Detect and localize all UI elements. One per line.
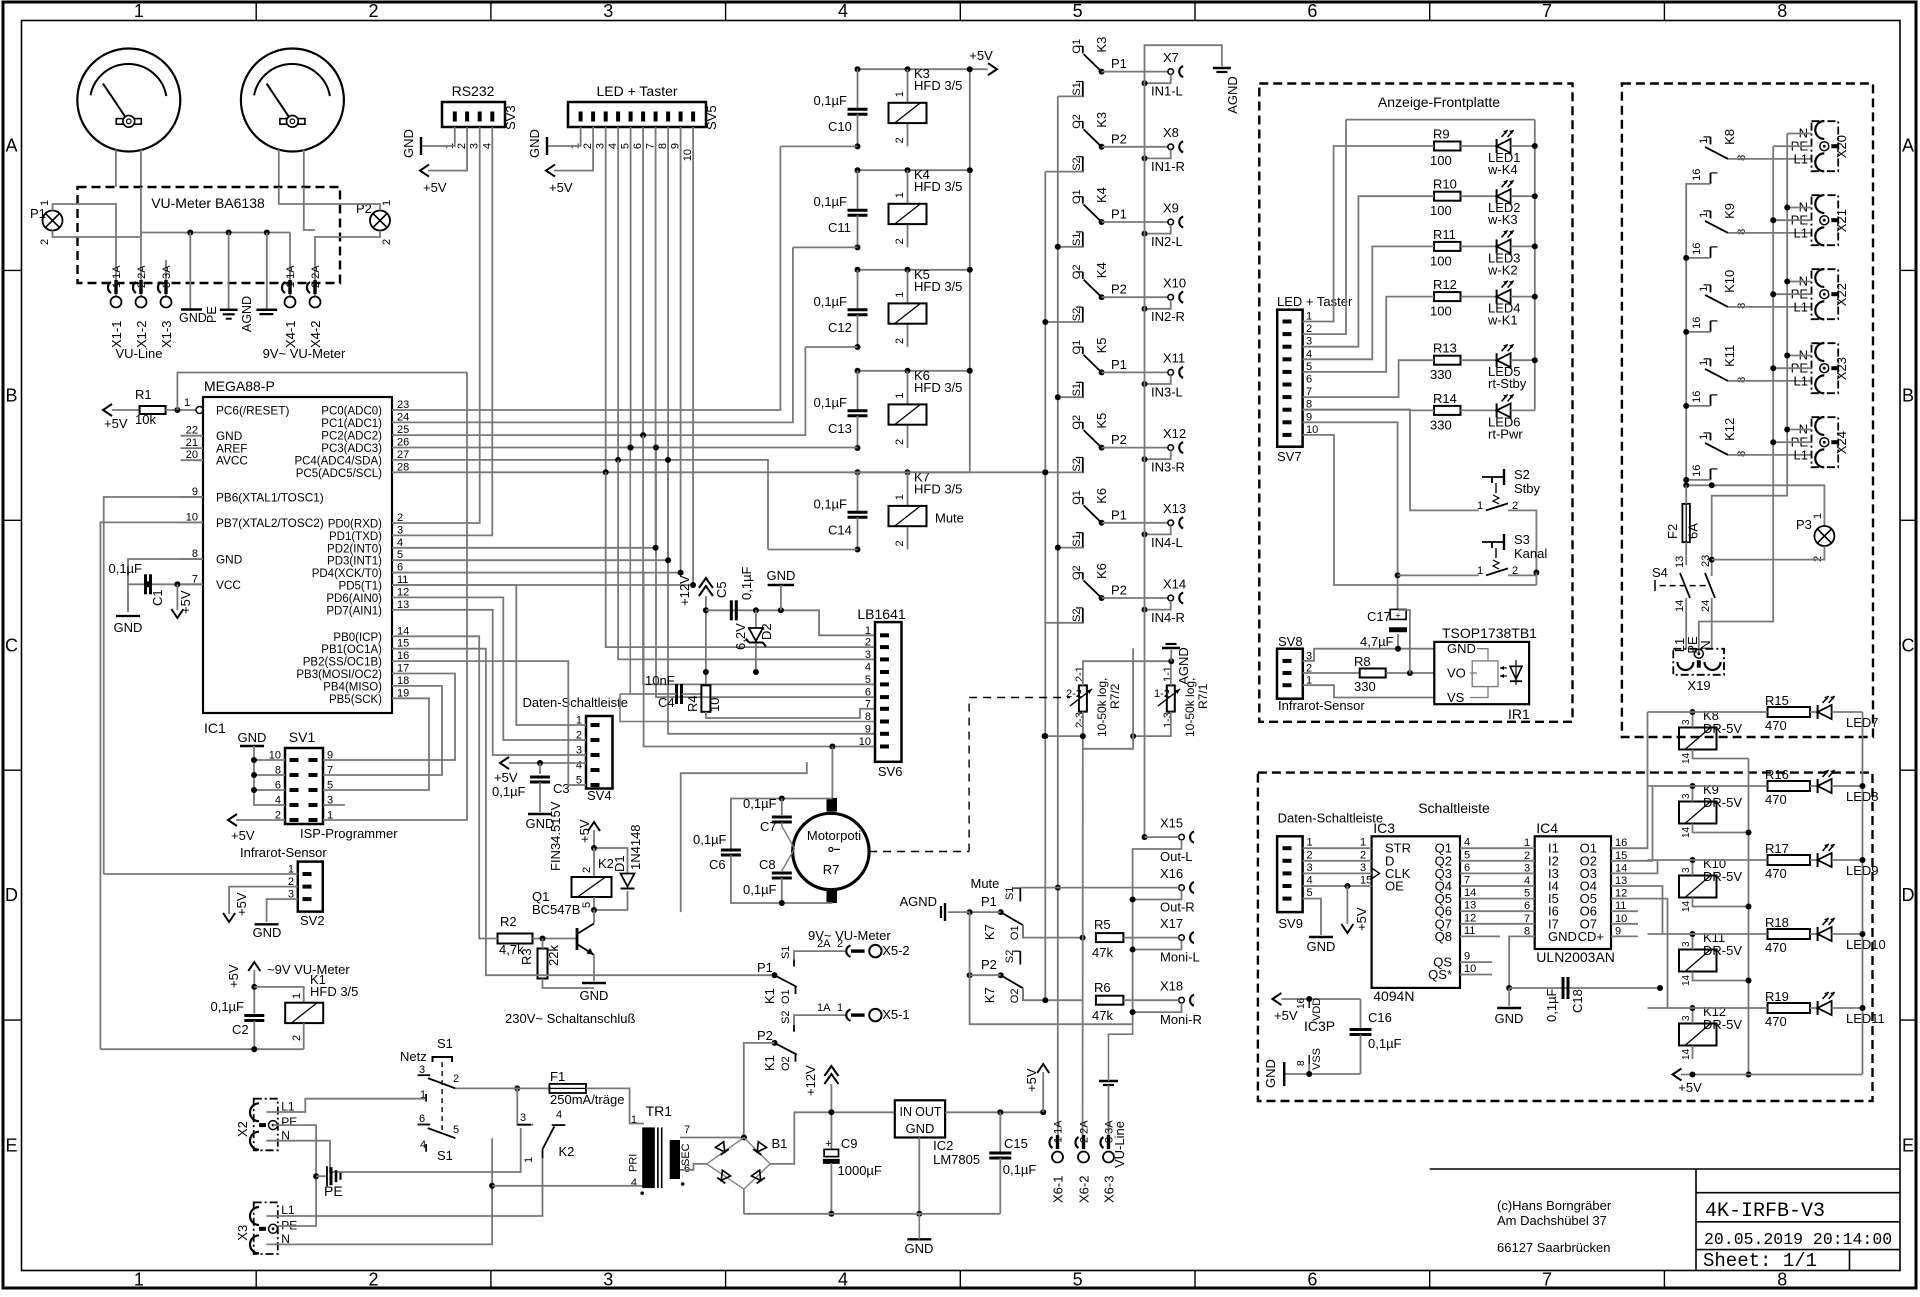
svg-text:10: 10	[707, 698, 722, 712]
switch S2 Stby	[1477, 467, 1541, 573]
svg-text:+5V: +5V	[226, 964, 241, 988]
connector X9 IN2-L	[1142, 200, 1184, 249]
label VU-Line	[116, 346, 163, 361]
svg-text:9: 9	[865, 723, 871, 735]
svg-text:R19: R19	[1765, 989, 1789, 1004]
svg-text:3: 3	[419, 1064, 425, 1076]
svg-text:11: 11	[1464, 925, 1475, 937]
wire SV3 taps	[392, 127, 492, 535]
svg-text:C3: C3	[553, 781, 570, 796]
lamp P3	[1712, 513, 1835, 562]
svg-text:C10: C10	[828, 119, 852, 134]
svg-text:PD4(XCK/T0): PD4(XCK/T0)	[312, 568, 382, 580]
svg-text:IN3-L: IN3-L	[1151, 384, 1183, 399]
svg-text:SV4: SV4	[587, 788, 612, 803]
transformer TR1	[492, 1103, 692, 1195]
svg-text:w-K4: w-K4	[1487, 162, 1518, 177]
terminal X6-2	[1075, 1120, 1091, 1203]
svg-text:X21: X21	[1834, 209, 1849, 232]
svg-text:AGND: AGND	[1225, 76, 1240, 114]
connector X8 IN1-R	[1142, 125, 1185, 174]
svg-text:Sheet: 1/1: Sheet: 1/1	[1703, 1250, 1817, 1272]
svg-text:PD1(TXD): PD1(TXD)	[329, 531, 382, 543]
wire X6 sleeve	[1109, 1024, 1133, 1081]
svg-text:8: 8	[1736, 451, 1748, 457]
svg-text:R8: R8	[1354, 654, 1371, 669]
svg-text:GND: GND	[1263, 1059, 1278, 1088]
svg-text:VO: VO	[1447, 666, 1466, 681]
svg-text:0,1µF: 0,1µF	[743, 796, 777, 811]
svg-text:IN2-L: IN2-L	[1151, 234, 1183, 249]
svg-text:K1: K1	[762, 1055, 777, 1071]
svg-text:13: 13	[1464, 900, 1476, 912]
svg-text:K3: K3	[1094, 112, 1109, 128]
svg-text:R7/2: R7/2	[1108, 683, 1122, 709]
wire SV8	[1303, 646, 1435, 698]
Anzeige-Frontplatte block	[1259, 84, 1572, 722]
svg-text:VSS: VSS	[1311, 1048, 1323, 1070]
svg-text:IC1: IC1	[204, 720, 226, 736]
svg-text:PE: PE	[324, 1183, 343, 1199]
svg-text:9V~ VU-Meter: 9V~ VU-Meter	[263, 346, 346, 361]
svg-text:O1: O1	[780, 989, 792, 1004]
svg-text:PB0(ICP): PB0(ICP)	[333, 632, 382, 644]
svg-text:16: 16	[1691, 169, 1703, 181]
svg-text:K11: K11	[1722, 345, 1737, 367]
resistor R1	[103, 373, 467, 432]
svg-text:PE: PE	[205, 306, 219, 323]
svg-text:IN2-R: IN2-R	[1151, 309, 1185, 324]
switch K7 mute contacts	[681, 762, 1133, 1024]
svg-text:3: 3	[865, 649, 871, 661]
svg-text:16: 16	[1296, 997, 1307, 1009]
svg-text:C: C	[1902, 635, 1915, 655]
capacitor C5	[706, 566, 875, 635]
wire K10 drive	[1648, 859, 1768, 861]
capacitor C7	[731, 796, 833, 851]
svg-text:+12V: +12V	[677, 575, 692, 606]
regulator IC2 LM7805	[895, 1100, 980, 1217]
svg-text:7: 7	[1542, 1, 1552, 21]
label 9V~ VU-Meter	[263, 346, 346, 361]
svg-text:+5V: +5V	[231, 828, 255, 843]
svg-text:Schaltleiste: Schaltleiste	[1418, 800, 1490, 816]
svg-text:14: 14	[1674, 600, 1686, 612]
switch contact K6 P1	[1071, 488, 1168, 548]
svg-text:D1: D1	[612, 855, 627, 872]
wire fuse node	[1683, 482, 1824, 562]
svg-text:R17: R17	[1765, 841, 1789, 856]
capacitor C1	[108, 559, 203, 635]
svg-text:O2: O2	[780, 1056, 792, 1071]
connector SV6 LB1641	[857, 606, 905, 779]
svg-text:X17: X17	[1160, 916, 1183, 931]
svg-text:R15: R15	[1765, 693, 1789, 708]
svg-text:X22: X22	[1834, 283, 1849, 306]
socket X20	[1791, 121, 1849, 171]
svg-text:(c)Hans Borngräber: (c)Hans Borngräber	[1497, 1198, 1612, 1213]
LED LED6	[1461, 394, 1535, 441]
svg-text:4,7µF: 4,7µF	[1360, 634, 1394, 649]
svg-text:1: 1	[134, 1270, 144, 1290]
svg-text:3: 3	[1681, 793, 1692, 799]
svg-text:14: 14	[1681, 900, 1692, 912]
resistor R17	[1765, 841, 1810, 881]
svg-text:IN3-R: IN3-R	[1151, 460, 1185, 475]
wire S1/S2 trunks	[1042, 96, 1083, 1135]
connector X5-2	[808, 928, 910, 958]
svg-text:Stby: Stby	[1514, 481, 1541, 496]
relay K3 coil	[889, 103, 927, 123]
svg-text:X10: X10	[1163, 276, 1186, 291]
switch contact K6 P2	[1071, 563, 1168, 623]
svg-text:C2: C2	[232, 1022, 249, 1037]
svg-text:TSOP1738TB1: TSOP1738TB1	[1442, 625, 1537, 641]
ground AGND X6	[1099, 1081, 1118, 1135]
svg-text:0,1µF: 0,1µF	[743, 882, 777, 897]
svg-text:+5V: +5V	[577, 819, 592, 843]
svg-text:0,1µF: 0,1µF	[1368, 1036, 1402, 1051]
svg-text:X9: X9	[1163, 200, 1179, 215]
svg-text:GND: GND	[905, 1241, 934, 1256]
svg-text:21: 21	[186, 437, 198, 449]
svg-text:IN4-L: IN4-L	[1151, 535, 1183, 550]
svg-text:14: 14	[1681, 752, 1692, 764]
resistor R15	[1765, 693, 1810, 733]
wire	[78, 187, 341, 296]
svg-text:PD6(AIN0): PD6(AIN0)	[326, 593, 382, 605]
svg-text:470: 470	[1765, 1014, 1787, 1029]
socket X22	[1791, 269, 1849, 319]
svg-text:C7: C7	[760, 819, 777, 834]
LED LED11	[1810, 992, 1885, 1026]
svg-text:C16: C16	[1368, 1010, 1392, 1025]
svg-text:F1: F1	[550, 1069, 565, 1084]
svg-text:SV3: SV3	[503, 105, 518, 130]
svg-text:470: 470	[1765, 940, 1787, 955]
svg-text:K4: K4	[1094, 262, 1109, 278]
svg-text:PB2(SS/OC1B): PB2(SS/OC1B)	[303, 657, 382, 669]
op-amp U1 microcontroller IC1 MEGA88-P	[181, 378, 410, 736]
svg-text:3: 3	[1307, 862, 1313, 874]
svg-text:PD2(INT0): PD2(INT0)	[327, 543, 382, 555]
svg-text:K2: K2	[559, 1144, 575, 1159]
svg-text:GND: GND	[527, 129, 542, 158]
svg-text:K5: K5	[1094, 413, 1109, 429]
svg-text:GND: GND	[767, 568, 796, 583]
svg-text:100: 100	[1430, 203, 1452, 218]
svg-text:F2: F2	[1665, 524, 1680, 539]
svg-text:GND: GND	[1548, 929, 1577, 944]
svg-text:w-K2: w-K2	[1487, 262, 1518, 277]
connector X14 IN4-R	[1142, 576, 1187, 625]
svg-text:OUT: OUT	[915, 1105, 942, 1119]
svg-text:4094N: 4094N	[1373, 988, 1414, 1004]
wire SV1	[228, 730, 398, 843]
svg-text:A: A	[1902, 135, 1914, 155]
svg-text:1: 1	[134, 1, 144, 21]
relay K9 coil DR-5V	[1679, 782, 1742, 824]
switch S3 Kanal	[1477, 532, 1547, 585]
svg-text:4: 4	[1307, 875, 1313, 887]
svg-text:3: 3	[603, 1270, 613, 1290]
svg-text:IN1-L: IN1-L	[1151, 84, 1183, 99]
svg-text:7: 7	[865, 698, 871, 710]
svg-text:P1: P1	[1111, 56, 1127, 71]
svg-text:PB3(MOSI/OC2): PB3(MOSI/OC2)	[296, 669, 382, 681]
wire K10 pin14	[1681, 898, 1749, 913]
capacitor C2	[100, 999, 303, 1052]
svg-text:7: 7	[1464, 875, 1470, 887]
svg-text:R5: R5	[1094, 917, 1111, 932]
ground AGND	[240, 233, 277, 333]
svg-text:Kanal: Kanal	[1514, 546, 1547, 561]
svg-text:HFD 3/5: HFD 3/5	[914, 481, 962, 496]
IR receiver IR1 TSOP1738TB1	[1434, 625, 1537, 722]
svg-text:16: 16	[1691, 391, 1703, 403]
svg-text:HFD 3/5: HFD 3/5	[914, 78, 962, 93]
svg-text:C5: C5	[714, 581, 729, 598]
svg-text:C6: C6	[709, 857, 726, 872]
terminal X6-3	[1100, 1120, 1116, 1203]
resistor R6 47k	[1042, 980, 1178, 1023]
svg-text:330: 330	[1430, 417, 1452, 432]
svg-text:O2: O2	[1009, 989, 1021, 1004]
svg-text:L1: L1	[1794, 374, 1808, 389]
svg-text:47k: 47k	[1092, 1008, 1113, 1023]
svg-text:P2: P2	[757, 1028, 773, 1043]
svg-text:P2: P2	[1111, 131, 1127, 146]
svg-text:PB1(OC1A): PB1(OC1A)	[321, 644, 382, 656]
svg-text:HFD 3/5: HFD 3/5	[914, 179, 962, 194]
svg-text:6: 6	[865, 687, 871, 699]
svg-text:P1: P1	[1111, 357, 1127, 372]
svg-text:S1: S1	[1071, 383, 1083, 396]
svg-text:ULN2003AN: ULN2003AN	[1536, 949, 1615, 965]
svg-text:R13: R13	[1433, 341, 1457, 356]
svg-text:+5V: +5V	[494, 770, 518, 785]
wire mechanical link	[869, 698, 1070, 852]
svg-text:Netz: Netz	[400, 1049, 427, 1064]
svg-text:8: 8	[1736, 155, 1748, 161]
svg-text:MEGA88-P: MEGA88-P	[204, 378, 275, 394]
svg-text:1: 1	[1307, 837, 1313, 849]
resistor R19	[1765, 989, 1810, 1029]
svg-text:1: 1	[1698, 138, 1710, 144]
svg-text:5: 5	[1073, 1, 1083, 21]
capacitor C6	[693, 832, 832, 903]
bridge rectifier B1	[680, 1112, 895, 1214]
svg-text:D: D	[5, 885, 18, 905]
svg-text:VCC: VCC	[216, 578, 241, 592]
ground PE	[316, 1166, 343, 1199]
svg-text:PC2(ADC2): PC2(ADC2)	[321, 431, 382, 443]
svg-text:C11: C11	[828, 220, 851, 235]
connector X16 Out-R	[1133, 866, 1195, 915]
svg-text:1: 1	[894, 91, 906, 97]
svg-text:Motorpoti: Motorpoti	[807, 828, 861, 843]
svg-text:10-50k log,: 10-50k log,	[1095, 678, 1109, 737]
connector SV3	[442, 83, 518, 149]
svg-text:P3: P3	[1796, 517, 1812, 532]
wire out nets	[1020, 834, 1178, 1024]
LED LED8	[1810, 770, 1879, 804]
svg-text:FIN34.515V: FIN34.515V	[548, 801, 563, 871]
svg-text:K8: K8	[1722, 129, 1737, 145]
LED LED4	[1461, 281, 1535, 328]
svg-text:S4: S4	[1652, 565, 1668, 580]
svg-text:5: 5	[1073, 1270, 1083, 1290]
svg-text:+5V: +5V	[178, 590, 193, 614]
svg-text:DR-5V: DR-5V	[1703, 795, 1742, 810]
svg-text:L1: L1	[1794, 152, 1808, 167]
LED LED2	[1461, 180, 1535, 227]
svg-text:2 2A: 2 2A	[310, 265, 322, 288]
relay K4 coil	[889, 204, 927, 224]
svg-text:C9: C9	[841, 1136, 858, 1151]
svg-text:R14: R14	[1433, 391, 1457, 406]
svg-text:3: 3	[1360, 862, 1366, 874]
LED LED3	[1461, 230, 1535, 277]
wire	[116, 150, 141, 188]
svg-text:+5V: +5V	[1354, 907, 1369, 931]
svg-text:330: 330	[1354, 679, 1376, 694]
svg-text:E: E	[1902, 1135, 1914, 1155]
svg-text:5: 5	[453, 1124, 459, 1136]
svg-text:PC4(ADC4/SDA): PC4(ADC4/SDA)	[294, 455, 382, 467]
svg-text:S1: S1	[437, 1148, 453, 1163]
fuse F2 6A	[1665, 485, 1701, 565]
terminal X4-2	[307, 265, 323, 348]
svg-text:1: 1	[1698, 434, 1710, 440]
svg-text:10nF: 10nF	[645, 673, 675, 688]
svg-text:1: 1	[1477, 565, 1483, 577]
connector X17 Moni-L	[1133, 916, 1200, 965]
svg-text:2-1: 2-1	[1074, 666, 1086, 682]
ground PE	[205, 233, 238, 324]
svg-text:6,2V: 6,2V	[733, 623, 748, 650]
svg-text:0,1µF: 0,1µF	[813, 194, 847, 209]
transistor Q1 BC547B	[505, 889, 636, 1026]
svg-text:Moni-L: Moni-L	[1160, 950, 1200, 965]
svg-text:HFD 3/5: HFD 3/5	[310, 984, 358, 999]
svg-text:B: B	[5, 385, 17, 405]
wire K11 drive	[1648, 933, 1768, 935]
svg-text:470: 470	[1765, 866, 1787, 881]
svg-text:1-1: 1-1	[1162, 666, 1174, 682]
svg-text:B: B	[1902, 385, 1914, 405]
connector SV4	[523, 695, 629, 803]
svg-text:8: 8	[1296, 1060, 1307, 1066]
wire K11 pin14	[1681, 972, 1749, 987]
svg-text:rt-Pwr: rt-Pwr	[1488, 426, 1523, 441]
svg-text:+5V: +5V	[1024, 1068, 1039, 1092]
svg-text:3: 3	[603, 1, 613, 21]
svg-text:2: 2	[369, 1270, 379, 1290]
socket X23	[1791, 343, 1849, 393]
svg-text:470: 470	[1765, 718, 1787, 733]
svg-text:2: 2	[581, 867, 593, 873]
svg-text:P1: P1	[757, 960, 773, 975]
svg-text:1: 1	[523, 1157, 535, 1163]
wire	[279, 150, 304, 188]
svg-text:4: 4	[838, 1, 848, 21]
connector X5-1	[817, 1002, 910, 1022]
svg-text:Daten-Schaltleiste: Daten-Schaltleiste	[523, 695, 629, 710]
svg-text:PB6(XTAL1/TOSC1): PB6(XTAL1/TOSC1)	[216, 491, 324, 505]
svg-text:PE: PE	[281, 1115, 297, 1129]
svg-text:SV5: SV5	[704, 105, 719, 130]
wire relay +5V rail	[1673, 712, 1866, 1095]
svg-text:470: 470	[1765, 792, 1787, 807]
svg-text:GND: GND	[238, 730, 267, 745]
label VU-Line	[1112, 1121, 1127, 1168]
svg-text:O1: O1	[1009, 925, 1021, 940]
svg-text:SV8: SV8	[1278, 634, 1303, 649]
svg-text:GND: GND	[179, 311, 207, 325]
svg-text:w-K1: w-K1	[1487, 313, 1518, 328]
svg-text:2: 2	[369, 1, 379, 21]
connector X13 IN4-L	[1142, 501, 1187, 550]
svg-text:3: 3	[1681, 719, 1692, 725]
svg-text:16: 16	[1691, 465, 1703, 477]
lamp P1	[30, 200, 78, 245]
svg-text:R11: R11	[1433, 227, 1456, 242]
svg-text:K10: K10	[1722, 270, 1737, 293]
svg-text:C18: C18	[1570, 989, 1585, 1013]
svg-text:8: 8	[1736, 303, 1748, 309]
svg-text:R3: R3	[519, 948, 534, 965]
svg-text:X14: X14	[1163, 576, 1186, 591]
wire MCU left trunks	[100, 497, 203, 1049]
svg-text:LM7805: LM7805	[933, 1152, 980, 1167]
wire L1 trunk	[1683, 184, 1689, 485]
svg-text:Out-L: Out-L	[1160, 849, 1193, 864]
svg-text:Infrarot-Sensor: Infrarot-Sensor	[240, 845, 327, 860]
switch contact K5 P1	[1071, 337, 1168, 397]
title block	[1430, 1169, 1900, 1272]
switch K1 pole2	[744, 1011, 845, 1138]
connector SV2	[240, 845, 327, 928]
svg-text:LED + Taster: LED + Taster	[1277, 294, 1353, 309]
svg-text:4: 4	[576, 760, 582, 772]
svg-text:+5V: +5V	[549, 180, 573, 195]
svg-text:2 2A: 2 2A	[1079, 1120, 1091, 1143]
potentiometer R7/2	[1042, 661, 1172, 739]
svg-text:1: 1	[39, 200, 51, 206]
svg-text:S2: S2	[1071, 157, 1083, 170]
ground SV9	[1303, 899, 1336, 954]
svg-text:Mute: Mute	[971, 876, 1000, 891]
wire K8 drive	[1648, 711, 1768, 713]
svg-text:IN: IN	[900, 1105, 913, 1119]
wire C4 net	[620, 445, 875, 722]
connector SV9	[1277, 836, 1313, 931]
svg-text:X23: X23	[1834, 357, 1849, 380]
svg-text:5: 5	[1464, 849, 1470, 861]
svg-text:2: 2	[894, 238, 906, 244]
svg-text:X7: X7	[1163, 50, 1179, 65]
relay K8 coil DR-5V	[1679, 708, 1742, 750]
svg-text:+5V: +5V	[1274, 1008, 1298, 1023]
wire SV2	[104, 874, 298, 940]
svg-text:8: 8	[1777, 1, 1787, 21]
svg-text:230V~ Schaltanschluß: 230V~ Schaltanschluß	[505, 1011, 636, 1026]
svg-text:+5V: +5V	[234, 892, 249, 916]
capacitor C15	[945, 1109, 1043, 1214]
svg-text:R7/1: R7/1	[1196, 683, 1210, 709]
svg-text:P2: P2	[1111, 282, 1127, 297]
